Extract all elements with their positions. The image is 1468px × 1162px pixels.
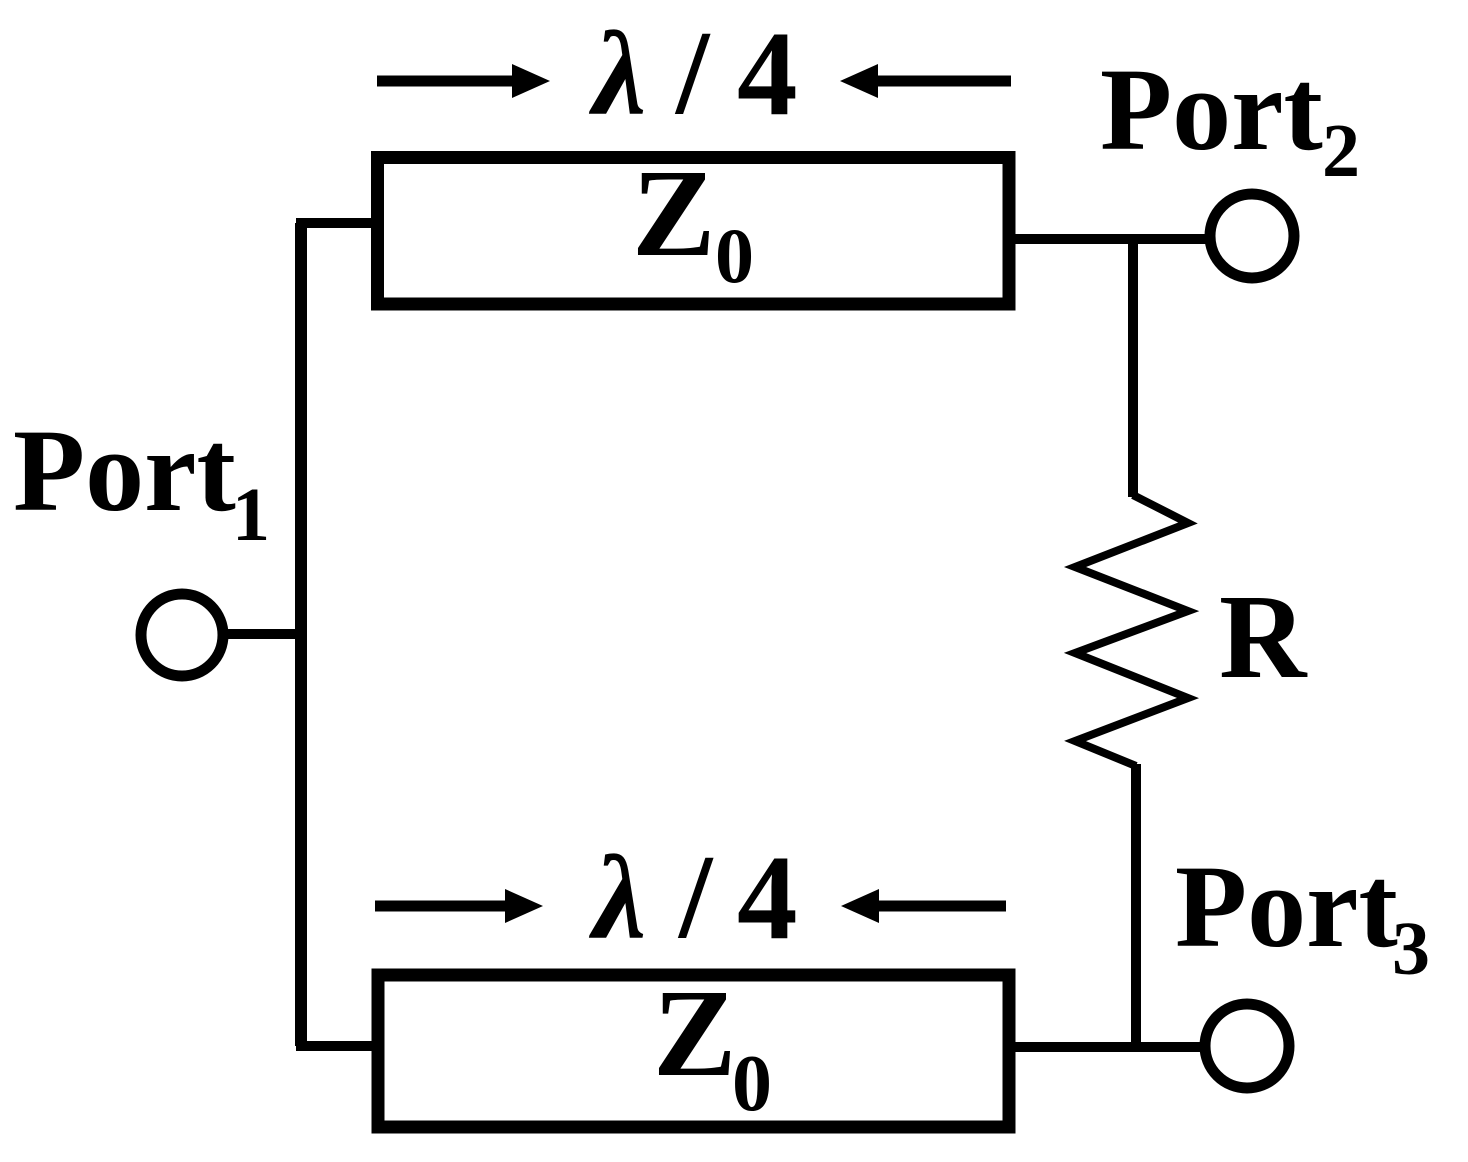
wire: top-left stub to Z0 box — [296, 218, 377, 228]
svg-text:λ: λ — [588, 831, 646, 964]
svg-text:4: 4 — [737, 831, 798, 965]
svg-text:Z: Z — [653, 965, 736, 1103]
svg-text:4: 4 — [737, 7, 798, 141]
port 2 terminal circle — [1210, 194, 1294, 278]
svg-text:Port: Port — [1175, 841, 1398, 972]
wire: bottom-right from Z0 box to Port3 — [1009, 1042, 1204, 1052]
svg-text:3: 3 — [1392, 907, 1430, 991]
wire: top-right from Z0 box to Port2 — [1009, 234, 1208, 244]
svg-text:Z: Z — [632, 145, 715, 283]
wire: resistor bottom lead — [1131, 764, 1141, 1046]
port 1 terminal circle — [141, 594, 223, 676]
svg-text:R: R — [1219, 570, 1308, 704]
svg-text:Port: Port — [1100, 44, 1323, 175]
svg-text:0: 0 — [715, 212, 754, 299]
svg-text:Port: Port — [13, 405, 236, 536]
svg-text:λ: λ — [588, 7, 646, 140]
port 3 terminal circle — [1205, 1004, 1289, 1088]
wire: port1 stub — [224, 629, 307, 639]
dimension arrow left (top) — [872, 76, 1011, 87]
svg-text:1: 1 — [232, 473, 270, 557]
dimension arrow right (top) — [377, 76, 516, 87]
svg-text:/: / — [674, 6, 711, 139]
dimension arrow right (bottom) — [375, 901, 510, 912]
svg-text:/: / — [677, 830, 714, 963]
transmission line Z0 (bottom) — [378, 975, 1009, 1127]
svg-text:2: 2 — [1322, 109, 1360, 193]
wire: resistor top lead — [1128, 240, 1138, 497]
svg-text:0: 0 — [732, 1040, 772, 1128]
wire: main vertical bus — [295, 223, 307, 1046]
transmission line Z0 (top) — [378, 158, 1010, 305]
resistor R zigzag — [1075, 495, 1188, 766]
dimension arrow left (bottom) — [873, 901, 1006, 912]
wire: bottom-left stub to Z0 box — [296, 1041, 378, 1051]
